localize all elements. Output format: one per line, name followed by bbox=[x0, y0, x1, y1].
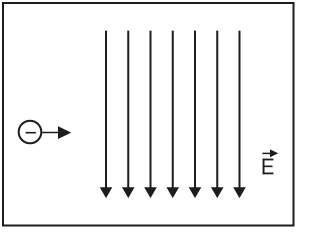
field line 7 bbox=[233, 31, 246, 199]
negative charge circle bbox=[19, 121, 42, 144]
velocity arrow line bbox=[42, 132, 60, 134]
E field label (letter E drawn as bars) bbox=[263, 159, 274, 175]
velocity arrowhead bbox=[58, 126, 71, 139]
minus sign bbox=[26, 132, 36, 134]
field line 5 bbox=[189, 31, 202, 199]
E field vector arrow line bbox=[262, 152, 271, 154]
field line 4 bbox=[166, 31, 179, 199]
field line 1 bbox=[100, 31, 113, 199]
field line 3 bbox=[144, 31, 157, 199]
E field vector arrowhead bbox=[270, 149, 278, 157]
field line 2 bbox=[122, 31, 135, 199]
field line 6 bbox=[211, 31, 224, 199]
